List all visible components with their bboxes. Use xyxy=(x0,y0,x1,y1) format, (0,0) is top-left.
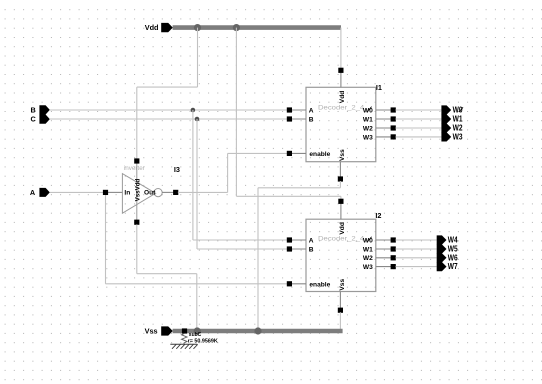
output port W6 label xyxy=(448,253,458,262)
decoder U2 pin enable square xyxy=(287,281,292,286)
wire net W1 xyxy=(396,118,442,120)
decoder U1 stub Vdd xyxy=(340,72,342,87)
wire net B vertical xyxy=(192,110,194,240)
output port W0 arrow xyxy=(441,105,451,114)
svg-text:W7: W7 xyxy=(448,262,458,271)
svg-text:In: In xyxy=(124,190,130,197)
svg-text:Vdd: Vdd xyxy=(339,91,346,103)
input port A arrow xyxy=(39,188,49,197)
resistor Rsub zigzag xyxy=(182,333,188,344)
output port W7 arrow xyxy=(437,262,447,271)
inverter U3 pin Out name xyxy=(144,190,156,197)
wire Vdd to decoder U2 (down) xyxy=(340,196,342,199)
inverter U3 pin Vss square xyxy=(134,220,139,225)
decoder U1 stub B xyxy=(289,118,306,120)
wire inverter Vss (horizontal) xyxy=(137,273,197,275)
inverter U3 bubble xyxy=(154,189,162,197)
decoder U2 pin B name xyxy=(309,247,314,254)
inverter U3 stub In xyxy=(107,191,122,193)
decoder U1 body xyxy=(306,87,376,161)
output port W5 label xyxy=(448,245,458,254)
wire Vdd to decoder U2 (horizontal) xyxy=(236,195,341,197)
decoder U1 stub W0 xyxy=(376,109,393,111)
wire net W2 xyxy=(396,127,442,129)
wire Vdd to inverter (vertical) xyxy=(197,28,199,88)
wire net W3 xyxy=(396,136,442,138)
decoder U2 stub W2 xyxy=(376,257,393,259)
decoder U1 pin W2 square xyxy=(391,125,396,130)
input port B arrow xyxy=(39,105,49,114)
svg-text:Vdd: Vdd xyxy=(339,222,346,234)
svg-text:W4: W4 xyxy=(448,236,458,245)
output port W2 label xyxy=(453,124,463,133)
svg-text:I2: I2 xyxy=(375,211,381,220)
wire net W7 xyxy=(396,266,437,268)
svg-text:W1: W1 xyxy=(363,247,373,254)
svg-text:Out: Out xyxy=(144,190,156,197)
decoder U1 pin W2 name xyxy=(363,125,373,132)
wire net W0 xyxy=(396,109,442,111)
wire net W4 xyxy=(396,239,437,241)
svg-text:W2: W2 xyxy=(363,125,373,132)
decoder U1 stub W3 xyxy=(376,136,393,138)
svg-text:r= 50.9569K: r= 50.9569K xyxy=(188,339,218,345)
decoder U1 pin W0 square xyxy=(391,107,396,112)
svg-text:W3: W3 xyxy=(453,133,463,142)
wire U2 Vss to bus xyxy=(339,312,341,331)
power port Vss arrow xyxy=(161,326,173,335)
svg-text:I3: I3 xyxy=(174,165,180,174)
svg-text:W5: W5 xyxy=(448,245,458,254)
wire net C horizontal xyxy=(50,118,288,120)
svg-text:W2: W2 xyxy=(363,255,373,262)
decoder U2 stub Vss xyxy=(339,292,341,311)
decoder U1 pin Vss name xyxy=(339,149,346,161)
wire net C to U2.B xyxy=(197,248,287,250)
resistor Rsub value r=50.9569K xyxy=(188,339,218,345)
svg-text:Vdd: Vdd xyxy=(145,23,159,32)
svg-text:W1: W1 xyxy=(363,116,373,123)
wire net B horizontal xyxy=(50,109,288,111)
decoder U1 stub A xyxy=(289,109,306,111)
decoder U2 pin W0 name xyxy=(363,237,373,245)
svg-text:A: A xyxy=(309,238,314,245)
inverter U3 pin In square xyxy=(103,190,108,195)
node I1 label xyxy=(376,83,382,92)
decoder U1 pin Vss square xyxy=(338,176,343,181)
decoder U2 body xyxy=(306,219,376,291)
svg-text:A: A xyxy=(30,188,36,197)
decoder U1 stub Vss xyxy=(339,162,341,179)
power port Vdd label xyxy=(145,23,159,32)
output port W0 label xyxy=(453,106,463,115)
svg-text:inverter: inverter xyxy=(124,165,145,172)
input port C label xyxy=(31,115,37,124)
decoder U1 name xyxy=(318,105,365,112)
wire Vdd to decoder U1 xyxy=(340,28,342,69)
svg-text:Vss: Vss xyxy=(145,327,158,336)
wire net C vertical xyxy=(196,119,198,249)
svg-text:W0: W0 xyxy=(453,106,463,115)
decoder U1 pin W3 square xyxy=(391,134,396,139)
svg-text:VssVdd: VssVdd xyxy=(135,178,142,201)
decoder U2 pin W2 square xyxy=(391,255,396,260)
decoder U1 pin W1 name xyxy=(363,116,373,123)
decoder U2 stub W3 xyxy=(376,266,393,268)
wire U1 Vss (horizontal) xyxy=(258,187,340,189)
decoder U2 pin B square xyxy=(287,246,292,251)
wire U1 Vss (vertical) xyxy=(257,188,259,331)
wire net W5 xyxy=(396,248,437,250)
wire net I3 vertical xyxy=(227,153,229,192)
svg-text:W3: W3 xyxy=(363,134,373,141)
Vss bus junction 2 (decoder U1) xyxy=(254,327,261,334)
junction net B xyxy=(191,108,196,113)
svg-text:W2: W2 xyxy=(453,124,463,133)
wire net I3 horizontal xyxy=(178,191,228,193)
svg-text:Decoder_2_4: Decoder_2_4 xyxy=(318,236,365,243)
decoder U1 pin W0 name xyxy=(363,107,373,115)
svg-text:enable: enable xyxy=(309,151,330,158)
wire U1 Vss (down) xyxy=(339,181,341,188)
decoder U2 pin W1 name xyxy=(363,247,373,254)
substrate pin square xyxy=(182,328,187,333)
inverter U3 body xyxy=(122,174,155,214)
power port Vdd arrow xyxy=(161,23,173,32)
decoder U1 stub W2 xyxy=(376,127,393,129)
decoder U1 pin Vdd name xyxy=(339,91,346,103)
output port W1 label xyxy=(453,115,463,124)
decoder U2 pin A square xyxy=(287,237,292,242)
svg-text:A: A xyxy=(309,107,314,114)
inverter U3 pin Vdd square xyxy=(134,158,139,163)
decoder U2 pin W0 square xyxy=(391,237,396,242)
decoder U2 pin Vss square xyxy=(338,308,343,313)
decoder U2 pin A name xyxy=(309,238,314,245)
wire Vdd to inverter (horizontal) xyxy=(137,86,198,88)
svg-text:W3: W3 xyxy=(363,264,373,271)
input port A label xyxy=(30,188,36,197)
inverter U3 stub Out xyxy=(162,191,176,193)
decoder U1 pin enable square xyxy=(287,151,292,156)
resistor Rsub name xyxy=(189,332,202,338)
junction net C xyxy=(195,117,200,122)
earth ground symbol xyxy=(170,344,197,349)
decoder U1 pin A name xyxy=(309,107,314,114)
decoder U1 pin W1 square xyxy=(391,116,396,121)
input port C arrow xyxy=(39,115,49,124)
power port Vss label xyxy=(145,327,158,336)
inverter U3 VssVdd name xyxy=(135,178,142,201)
inverter U3 pin In name xyxy=(124,190,130,197)
svg-text:subC: subC xyxy=(189,332,202,338)
inverter U3 label xyxy=(124,165,145,172)
svg-text:W1: W1 xyxy=(453,115,463,124)
wire net I3 to U1.enable xyxy=(228,152,288,154)
wire Vdd to decoder U2 (vertical) xyxy=(235,28,237,197)
wire net A to U2.enable xyxy=(106,283,288,285)
decoder U2 pin Vdd name xyxy=(339,222,346,234)
Vss bus junction 1 (inverter) xyxy=(194,327,201,334)
decoder U2 stub enable xyxy=(289,283,306,285)
decoder U2 name xyxy=(318,236,365,243)
decoder U1 pin Vdd square xyxy=(338,68,343,73)
decoder U2 pin W1 square xyxy=(391,246,396,251)
Vdd bus junction 1 xyxy=(194,24,201,31)
output port W1 arrow xyxy=(441,114,451,123)
wire inverter Vss (vertical) xyxy=(136,224,138,273)
svg-text:B: B xyxy=(309,116,314,123)
decoder U1 stub enable xyxy=(289,152,306,154)
output port W4 label xyxy=(448,236,458,245)
decoder U2 pin W2 name xyxy=(363,255,373,262)
svg-text:enable: enable xyxy=(309,281,330,288)
output port W3 arrow xyxy=(441,132,451,141)
decoder U1 pin B name xyxy=(309,116,314,123)
svg-text:C: C xyxy=(31,115,37,124)
svg-text:Decoder_2_4: Decoder_2_4 xyxy=(318,105,365,112)
decoder U2 stub W1 xyxy=(376,248,393,250)
wire Vdd to inverter (down to pin) xyxy=(136,87,138,161)
output port W2 arrow xyxy=(441,123,451,132)
wire net B to U2.A xyxy=(193,239,288,241)
svg-text:B: B xyxy=(31,105,36,114)
Vdd bus junction 2 xyxy=(233,24,240,31)
decoder U2 stub B xyxy=(289,248,306,250)
decoder U2 pin Vdd square xyxy=(338,199,343,204)
node I3 label xyxy=(174,165,180,174)
decoder U2 stub Vdd xyxy=(340,203,342,219)
wire net A horizontal xyxy=(50,191,106,193)
svg-text:B: B xyxy=(309,247,314,254)
wire net W6 xyxy=(396,257,437,259)
output port W3 label xyxy=(453,133,463,142)
inverter U3 pin Out square xyxy=(173,190,178,195)
decoder U2 stub A xyxy=(289,239,306,241)
output port W6 arrow xyxy=(437,253,447,262)
decoder U2 pin Vss name xyxy=(339,279,346,291)
input port B label xyxy=(31,105,36,114)
decoder U1 pin enable name xyxy=(309,151,330,158)
svg-text:Vss: Vss xyxy=(339,149,346,161)
decoder U1 pin A square xyxy=(287,107,292,112)
decoder U1 pin B square xyxy=(287,116,292,121)
Vss power bus wire xyxy=(173,329,343,334)
output port W4 arrow xyxy=(437,235,447,244)
inverter U3 power rail xyxy=(136,163,138,220)
wire inverter Vss (down) xyxy=(196,274,198,331)
decoder U2 stub W0 xyxy=(376,239,393,241)
decoder U1 stub W1 xyxy=(376,118,393,120)
Vdd power bus wire xyxy=(173,25,341,30)
wire net A vertical xyxy=(105,192,107,283)
node I2 label xyxy=(375,211,381,220)
output port W7 label xyxy=(448,262,458,271)
decoder U1 pin W3 name xyxy=(363,134,373,141)
svg-text:W6: W6 xyxy=(448,253,458,262)
output port W5 arrow xyxy=(437,244,447,253)
decoder U2 pin enable name xyxy=(309,281,330,288)
svg-text:Vss: Vss xyxy=(339,279,346,291)
svg-text:I1: I1 xyxy=(376,83,382,92)
decoder U2 pin W3 name xyxy=(363,264,373,271)
decoder U2 pin W3 square xyxy=(391,264,396,269)
